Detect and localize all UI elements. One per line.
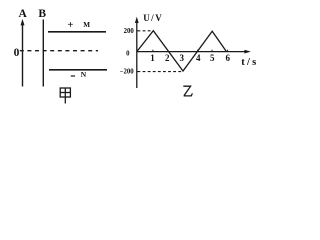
caption jia (drawn CJK glyph) bbox=[60, 88, 70, 104]
dashed guide -200 bbox=[138, 71, 183, 73]
svg-text:0: 0 bbox=[14, 47, 20, 59]
graph x-axis bbox=[137, 51, 248, 53]
svg-text:4: 4 bbox=[196, 53, 201, 63]
x tick marks bbox=[152, 50, 154, 52]
minus sign bbox=[71, 75, 75, 77]
svg-text:2: 2 bbox=[165, 53, 170, 63]
svg-text:1: 1 bbox=[150, 53, 155, 63]
svg-text:3: 3 bbox=[180, 53, 185, 63]
svg-text:200: 200 bbox=[124, 28, 135, 35]
plate N (bottom horizontal plate) bbox=[49, 69, 107, 71]
plate B (vertical line) bbox=[42, 20, 44, 87]
plate M (top horizontal plate) bbox=[48, 31, 106, 33]
svg-text:t/s: t/s bbox=[241, 57, 258, 68]
svg-text:A: A bbox=[18, 8, 27, 20]
svg-text:B: B bbox=[38, 8, 46, 20]
graph y-axis bbox=[136, 19, 138, 88]
svg-text:U/V: U/V bbox=[143, 13, 163, 23]
svg-text:M: M bbox=[83, 21, 90, 29]
dashed guide +200 bbox=[138, 30, 153, 32]
svg-text:5: 5 bbox=[210, 53, 215, 63]
svg-text:N: N bbox=[81, 70, 87, 79]
svg-text:−200: −200 bbox=[120, 68, 135, 75]
svg-text:+: + bbox=[67, 20, 73, 31]
plate A (vertical line with up arrow) bbox=[22, 23, 24, 87]
dashed center line (left diagram) bbox=[20, 50, 98, 52]
svg-text:0: 0 bbox=[126, 50, 130, 57]
caption yi (drawn CJK glyph) bbox=[183, 86, 192, 96]
svg-text:6: 6 bbox=[226, 53, 231, 63]
triangular waveform bbox=[137, 31, 227, 71]
